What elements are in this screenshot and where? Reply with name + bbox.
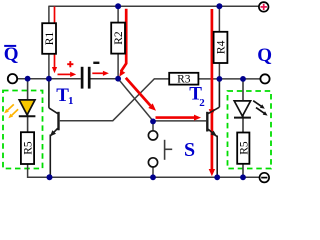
LED D2 right (off, white) [234,101,251,118]
junction node switch top [150,119,156,125]
current arrow into capacitor [58,73,72,75]
wire right R5 to bottom rail [242,164,244,178]
wire left R5 to bottom rail [28,164,49,177]
svg-text:R2: R2 [113,31,125,45]
cap arrow2 head [103,71,109,76]
resistor R4 [214,32,228,63]
terminal minus [260,173,270,183]
wire R3 left to T1 base diagonal [60,79,169,121]
junction node B [115,76,121,82]
resistor R5 right [237,133,250,164]
wire node B to T2 base diagonal [118,79,206,121]
current path red R2 branch [121,9,126,72]
resistor R2 [111,23,125,54]
wire right LED branch top [242,79,244,101]
svg-text:2: 2 [199,97,205,109]
wire R2 bottom to node B [117,54,119,79]
wire right LED to R5 [242,103,244,133]
base arrowhead [194,115,201,121]
svg-text:R5: R5 [238,141,250,155]
LED D1 left (lit, yellow) [19,100,36,116]
resistor R1 [42,23,56,54]
wire left LED to R5 [27,103,29,132]
svg-text:R4: R4 [216,40,228,54]
ray R2 head [263,111,268,115]
svg-text:R1: R1 [44,32,56,46]
LED D2 rays black [253,101,264,113]
transistor T1 [49,79,59,178]
junction node C [217,76,223,82]
svg-text:1: 1 [68,95,74,107]
ray L2 head [8,114,13,119]
wire R1 bottom to node A [48,54,50,79]
LED indicator dashed box left [3,91,43,169]
junction node rail right LED [240,174,246,180]
wire top rail [48,5,258,7]
current path red diagonal node B to T2 base [126,78,151,106]
wire Qbar terminal to capacitor [18,78,81,80]
terminal Q [260,74,269,83]
current path red main vertical right [211,9,214,172]
wire R2 top vertical [117,6,119,23]
T2 emitter arrowhead [211,131,217,137]
terminal Qbar [8,74,17,83]
current path red R1 branch [54,7,56,69]
junction node rail switch [150,174,156,180]
junction node top R4 [216,3,222,9]
wire node C to Q terminal [198,78,260,80]
resistor R5 left [21,132,35,164]
D1 arrowhead [148,103,156,110]
cap arrow1 head [70,72,76,77]
switch S [148,131,172,167]
transistor T2 [207,79,219,177]
T1 emitter arrowhead [50,130,56,136]
wire R1 top vertical [48,6,50,23]
svg-text:Q: Q [4,44,19,65]
current arrow out of capacitor [92,72,103,74]
wire left LED branch top [27,79,29,101]
junction node left LED [25,76,31,82]
R1 arrowhead [52,67,57,73]
svg-text:R5: R5 [23,141,35,155]
resistor R3 [169,73,198,86]
wire switch bottom to rail [152,168,154,178]
label Qbar [4,44,19,65]
svg-text:Q: Q [257,45,272,66]
wire switch dot to T2 base [152,121,154,130]
current path red along T2 base [156,116,196,119]
ray L1 head [4,109,9,114]
capacitor C1 plates [82,67,89,89]
wire R4 bottom to node C [218,63,220,79]
ray R1 head [260,104,265,108]
LED D1 light rays yellow [8,104,19,115]
wire bottom rail [49,176,260,178]
wire R4 top vertical [218,6,220,32]
LED indicator dashed box right [228,91,272,169]
junction node right LED [240,76,246,82]
main mid arrowhead [209,109,215,116]
polarity plus sign red [67,61,73,67]
polarity minus sign black [93,62,99,64]
label T1 [56,85,73,107]
terminal plus [259,2,269,12]
junction node rail T2 [214,174,220,180]
junction node top R2 [115,3,121,9]
R2 arrowhead [119,70,125,77]
label T2 [189,84,205,110]
svg-text:S: S [184,139,195,161]
main bot arrowhead [209,169,215,176]
wire capacitor to node B [91,78,119,80]
junction node A [46,76,52,82]
junction node rail T1 [47,174,53,180]
